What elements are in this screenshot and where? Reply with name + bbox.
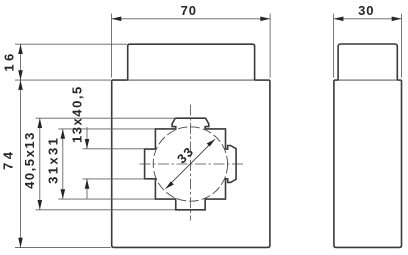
window cut-out (cross with clip slots)	[145, 118, 237, 210]
dim 70 extension line right	[269, 14, 271, 78]
dim 31x31 arrowhead down	[61, 189, 66, 199]
dim 70 arrowhead left	[112, 17, 122, 22]
side view cap	[338, 44, 397, 80]
dim 30 arrowhead right	[392, 17, 402, 22]
front view body top edge (outside cap, left)	[112, 79, 128, 81]
dim 40,5x13 arrowhead down	[38, 200, 43, 210]
svg-text:74: 74	[1, 149, 16, 170]
dim 70 extension line left	[111, 14, 113, 78]
dim 30 arrowhead left	[334, 17, 344, 22]
side view body top edge (behind cap)	[338, 79, 397, 81]
dim 16 arrowhead up	[18, 44, 23, 54]
side view body	[334, 80, 402, 247]
dim 30 line	[334, 18, 402, 20]
svg-text:13x40,5: 13x40,5	[70, 85, 85, 143]
conductor circle dia 33 (dashed)	[153, 127, 227, 201]
dim 74 extension line bottom	[15, 247, 111, 249]
dim 33 arrowhead lower-left	[166, 181, 174, 188]
dim 70 arrowhead right	[260, 17, 270, 22]
dim 74 arrowhead down	[18, 238, 23, 248]
dim 16 arrowhead down	[18, 70, 23, 80]
dim 13x40,5 arrowhead down (outside above)	[85, 139, 90, 149]
svg-text:16: 16	[1, 50, 16, 71]
dim 30 extension line left	[333, 14, 335, 78]
svg-text:31x31: 31x31	[46, 136, 61, 184]
dim 13x40,5 extension line bottom	[83, 178, 145, 180]
dim 31x31 extension line top	[59, 128, 156, 130]
svg-text:30: 30	[358, 3, 374, 18]
dim 40,5x13 extension line bottom	[36, 209, 176, 211]
svg-text:70: 70	[181, 3, 197, 18]
dim 31x31 arrowhead up	[61, 129, 66, 139]
svg-text:40,5x13: 40,5x13	[22, 131, 37, 189]
side view body top edge (outside cap, left)	[334, 79, 338, 81]
dim 13x40,5 lower tail	[86, 179, 88, 199]
dim 13x40,5 upper tail	[86, 127, 88, 149]
dim 74 line	[20, 80, 22, 248]
dim 33 arrowhead upper-right	[207, 139, 215, 146]
side view body top edge (outside cap, right)	[397, 79, 401, 81]
dim 16 line	[20, 44, 22, 80]
dim 13x40,5 extension line top	[83, 148, 145, 150]
svg-text:33: 33	[174, 143, 197, 166]
dim 31x31 line	[62, 129, 64, 199]
dim 40,5x13 line	[39, 118, 41, 210]
dim 30 extension line right	[401, 14, 403, 78]
dim 16 extension line top	[15, 43, 127, 45]
dim 40,5x13 arrowhead up	[38, 118, 43, 128]
front view body top edge (outside cap, right)	[255, 79, 270, 81]
dim 13x40,5 arrowhead up (outside below)	[85, 179, 90, 189]
front view body top edge (behind cap)	[128, 79, 255, 81]
dim 33 diagonal arrow line	[166, 139, 216, 189]
vertical centerline	[189, 105, 191, 221]
dim 74 arrowhead up	[18, 80, 23, 90]
horizontal centerline	[140, 163, 245, 165]
dim 16 / 74 shared extension line at body top	[15, 79, 111, 81]
dim 70 line	[112, 18, 271, 20]
front view cap	[128, 44, 255, 80]
dim 31x31 extension line bottom	[59, 198, 156, 200]
dim 40,5x13 extension line top	[36, 117, 177, 119]
front view body	[112, 80, 270, 247]
